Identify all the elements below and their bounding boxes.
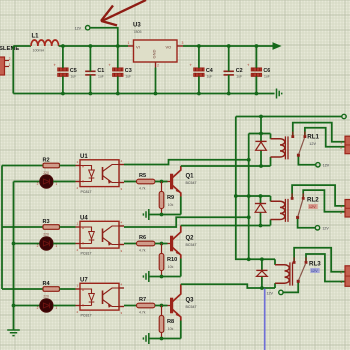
svg-text:C2: C2 [236,68,243,74]
diode DRL3 flyback [256,259,267,288]
capacitor C4 1uF [189,46,212,95]
optocoupler U7 PC817 [76,277,125,317]
wire LED to opto pin2 [53,181,75,183]
relay RL1 switch [291,132,306,157]
svg-text:1: 1 [128,41,130,45]
svg-text:+: + [53,63,56,68]
wire emitter ground row [149,275,181,279]
capacitor C1 1uF [85,46,104,95]
svg-text:2: 2 [9,57,11,61]
svg-text:4.7k: 4.7k [139,187,146,191]
svg-text:10k: 10k [168,265,174,269]
wire blue to bottom edge [264,289,266,350]
optocoupler U4 PC817 [76,215,125,255]
svg-text:12V: 12V [267,291,274,295]
svg-text:R4: R4 [43,281,51,287]
svg-text:12V: 12V [75,27,82,31]
svg-text:BC547: BC547 [186,305,197,309]
svg-text:220: 220 [43,295,49,299]
wire RL1 loop top [249,132,271,136]
svg-text:PC817: PC817 [81,314,92,318]
LED D2 indicator [37,237,58,250]
svg-text:3: 3 [182,41,184,45]
svg-text:U1: U1 [80,154,88,160]
annotation arrow pointing at 12V node [101,0,146,25]
svg-text:12V: 12V [322,227,329,231]
svg-text:GND: GND [152,49,157,58]
svg-text:RL3: RL3 [309,260,321,267]
svg-text:R2: R2 [43,157,50,163]
wire rail L1 to U3 pin1 [59,44,128,48]
relay RL2 labels [307,196,319,209]
svg-text:+: + [189,63,192,68]
wire LED row [14,181,40,183]
svg-text:1uF: 1uF [264,75,270,79]
svg-text:SLEME: SLEME [0,46,19,52]
relay RL3 switch [293,257,308,282]
svg-text:2: 2 [340,146,342,150]
inductor L1 100mH [31,34,59,53]
svg-text:2: 2 [157,64,159,68]
LED D1 indicator [37,175,58,188]
wire emitter ground row [149,213,181,217]
wire 12V vertical Va [247,134,251,260]
svg-text:C4: C4 [206,68,213,74]
wire LED to opto pin2 [53,305,75,307]
terminal 12V at RL1 rail end [342,114,346,118]
svg-text:R6: R6 [139,235,146,241]
relay RL2 contact wire B [303,190,344,212]
relay RL2 coil [271,196,289,226]
diode DRL2 flyback [255,196,266,226]
svg-text:+: + [247,63,250,68]
svg-text:R9: R9 [167,195,174,201]
wire input row to R3 [2,226,43,228]
LED D3 indicator [37,299,58,312]
relay RL2 contact wire A [292,185,344,206]
svg-text:U4: U4 [80,215,88,221]
ground symbol right of power rail [277,89,282,99]
svg-text:C6: C6 [263,68,270,74]
ground for Q2 emitter [143,271,148,282]
svg-text:RL1: RL1 [307,134,319,141]
svg-text:C3: C3 [125,68,132,74]
svg-text:4.7k: 4.7k [139,311,146,315]
output arrow terminal [273,43,280,49]
capacitor C3 1uF [108,46,131,95]
svg-text:12V: 12V [309,205,316,209]
ground symbol bottom left [7,330,20,336]
wire input row to R2 [2,165,43,167]
ground for Q3 emitter [143,333,148,344]
svg-text:C5: C5 [70,68,77,74]
resistor R8 10k [159,306,174,339]
svg-text:BC547: BC547 [186,243,197,247]
relay RL3 contact wire A [294,248,344,272]
node 12V input terminal [75,26,90,31]
wire R7 to Q3 base [155,304,170,308]
wire Q3 collector to RL3 coil [181,284,275,290]
wire R6 to Q2 base [155,242,170,246]
connector J1 BESLEME terminal block [0,46,19,75]
wire 12V vertical V1 and line to RL3 coil top [234,117,275,262]
wire output rail from U3 to arrow [183,44,273,48]
svg-text:Q1: Q1 [186,174,195,180]
wire RL1 rail [236,115,342,119]
wire input top rail to L1 [13,45,31,47]
svg-text:220: 220 [43,233,49,237]
svg-text:R5: R5 [139,173,146,179]
wire R2 to opto pin1 [60,165,76,167]
capacitor C6 1uF [247,46,270,95]
wire input row to R4 [2,288,43,290]
svg-text:2: 2 [37,244,39,248]
svg-text:+: + [108,63,111,68]
svg-text:1uF: 1uF [207,75,213,79]
wire Q3 emitter to ground row [180,321,182,339]
svg-text:1uF: 1uF [98,75,104,79]
wire LED to opto pin2 [53,243,75,245]
ground for Q1 emitter [143,209,148,220]
resistor R7 4.7k [137,297,156,315]
relay RL1 contact wire B [305,128,345,147]
resistor R4 220 [43,281,60,299]
transistor Q3 BC547 [172,284,197,320]
capacitor C5 1uF [53,46,76,95]
wire Q1 collector to RL1 coil [181,164,271,168]
wire opto pin3 to R7 [124,305,137,307]
wire emitter ground row [149,337,181,341]
wire R4 to opto pin1 [60,288,76,290]
capacitor C2 1uF [224,46,243,95]
relay RL2 pole wire to 12V [298,217,316,227]
svg-text:Q2: Q2 [186,236,195,242]
resistor R9 10k [159,182,174,215]
wire Q1 emitter to ground row [180,197,182,215]
terminal block JRL2 [340,200,350,218]
relay RL1 contact wire A [293,123,345,142]
svg-text:4.7k: 4.7k [139,249,146,253]
resistor R2 220 [43,157,60,175]
wire input vertical from connector to rails [12,46,14,94]
relay RL3 coil [275,259,293,288]
svg-text:Q3: Q3 [186,298,195,304]
svg-text:1: 1 [340,205,342,209]
relay RL3 labels [309,260,321,273]
wire Q2 emitter to ground row [180,259,182,277]
wire opto pin3 to R6 [124,243,137,245]
svg-text:12V: 12V [309,142,316,146]
svg-text:U7: U7 [80,277,88,283]
optocoupler U1 PC817 [76,154,125,194]
resistor R6 4.7k [137,235,156,253]
terminal block JRL3 [340,266,350,287]
wire U3 pin2 to ground rail [154,68,158,96]
svg-text:C1: C1 [97,68,104,74]
svg-text:U3: U3 [133,22,141,28]
wire U4 pin4 to 12V net [124,215,251,227]
svg-text:PC817: PC817 [81,190,92,194]
wire U1 pin4 to 12V net [124,158,251,165]
svg-text:VI: VI [136,44,140,49]
svg-text:1: 1 [55,306,57,310]
svg-text:7805: 7805 [134,30,142,34]
terminal 12V of relay RL2 [315,226,329,231]
resistor R3 220 [43,219,60,237]
svg-text:BC547: BC547 [186,181,197,185]
resistor R10 10k [159,244,177,277]
wire LED row [14,305,40,307]
svg-text:1: 1 [55,244,57,248]
svg-text:12V: 12V [323,164,330,168]
svg-text:1uF: 1uF [125,75,131,79]
terminal 12V of relay RL1 [316,163,330,168]
wire left input bus vertical [1,166,3,290]
wire opto pin3 to R5 [124,181,137,183]
svg-text:R3: R3 [43,219,50,225]
svg-text:R8: R8 [167,319,174,325]
transistor Q2 BC547 [172,226,197,259]
svg-text:L1: L1 [32,34,40,40]
svg-text:R10: R10 [167,257,177,263]
regulator U3 7805 [128,22,184,67]
svg-text:1: 1 [340,280,342,284]
wire ground rail of power section [13,93,274,95]
wire LED cathode bus vertical [12,182,16,331]
svg-text:2: 2 [340,270,342,274]
svg-text:1: 1 [55,182,57,186]
relay RL1 labels [307,134,319,147]
wire LED row [14,243,40,245]
svg-text:12V: 12V [311,269,318,273]
svg-text:10k: 10k [168,203,174,207]
relay RL3 pole wire to 12V [283,281,298,292]
relay RL2 switch [291,193,305,219]
svg-text:1uF: 1uF [236,75,242,79]
wire R3 to opto pin1 [60,226,76,228]
wire Q2 collector to RL2 coil [181,224,271,228]
diode DRL1 flyback [255,117,266,167]
svg-text:R7: R7 [139,297,146,303]
terminal 12V of relay RL3 [267,290,284,295]
svg-text:10k: 10k [168,327,174,331]
svg-text:1: 1 [340,140,342,144]
relay RL1 coil [271,134,289,167]
transistor Q1 BC547 [172,166,197,197]
svg-text:2: 2 [37,182,39,186]
relay RL3 contact wire B [306,254,345,282]
svg-text:VO: VO [166,44,172,49]
svg-text:2: 2 [340,211,342,215]
svg-text:PC817: PC817 [81,252,92,256]
svg-text:100mH: 100mH [33,49,45,53]
wire R5 to Q1 base [155,180,170,184]
svg-text:1uF: 1uF [71,75,77,79]
svg-text:2: 2 [37,306,39,310]
resistor R5 4.7k [137,173,156,191]
terminal block JRL1 [340,136,350,154]
svg-text:1: 1 [9,63,11,67]
relay RL1 pole wire to 12V [298,155,315,165]
svg-text:RL2: RL2 [307,196,319,203]
wire 12V node to rail [90,28,118,46]
wire H2 12V to RL2 [236,194,271,198]
